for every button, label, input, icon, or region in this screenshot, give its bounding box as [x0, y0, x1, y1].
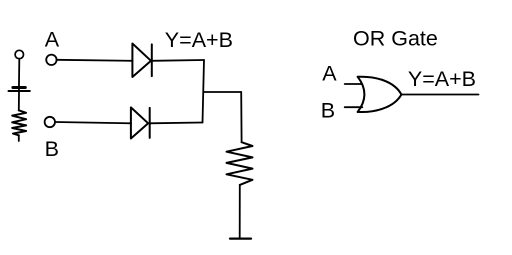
svg-text:Y=A+B: Y=A+B	[165, 28, 233, 52]
svg-text:B: B	[321, 98, 335, 122]
svg-text:B: B	[45, 137, 59, 161]
svg-text:A: A	[45, 27, 60, 51]
svg-text:Y=A+B: Y=A+B	[408, 67, 476, 91]
svg-text:OR Gate: OR Gate	[353, 27, 438, 51]
svg-text:A: A	[322, 62, 337, 86]
